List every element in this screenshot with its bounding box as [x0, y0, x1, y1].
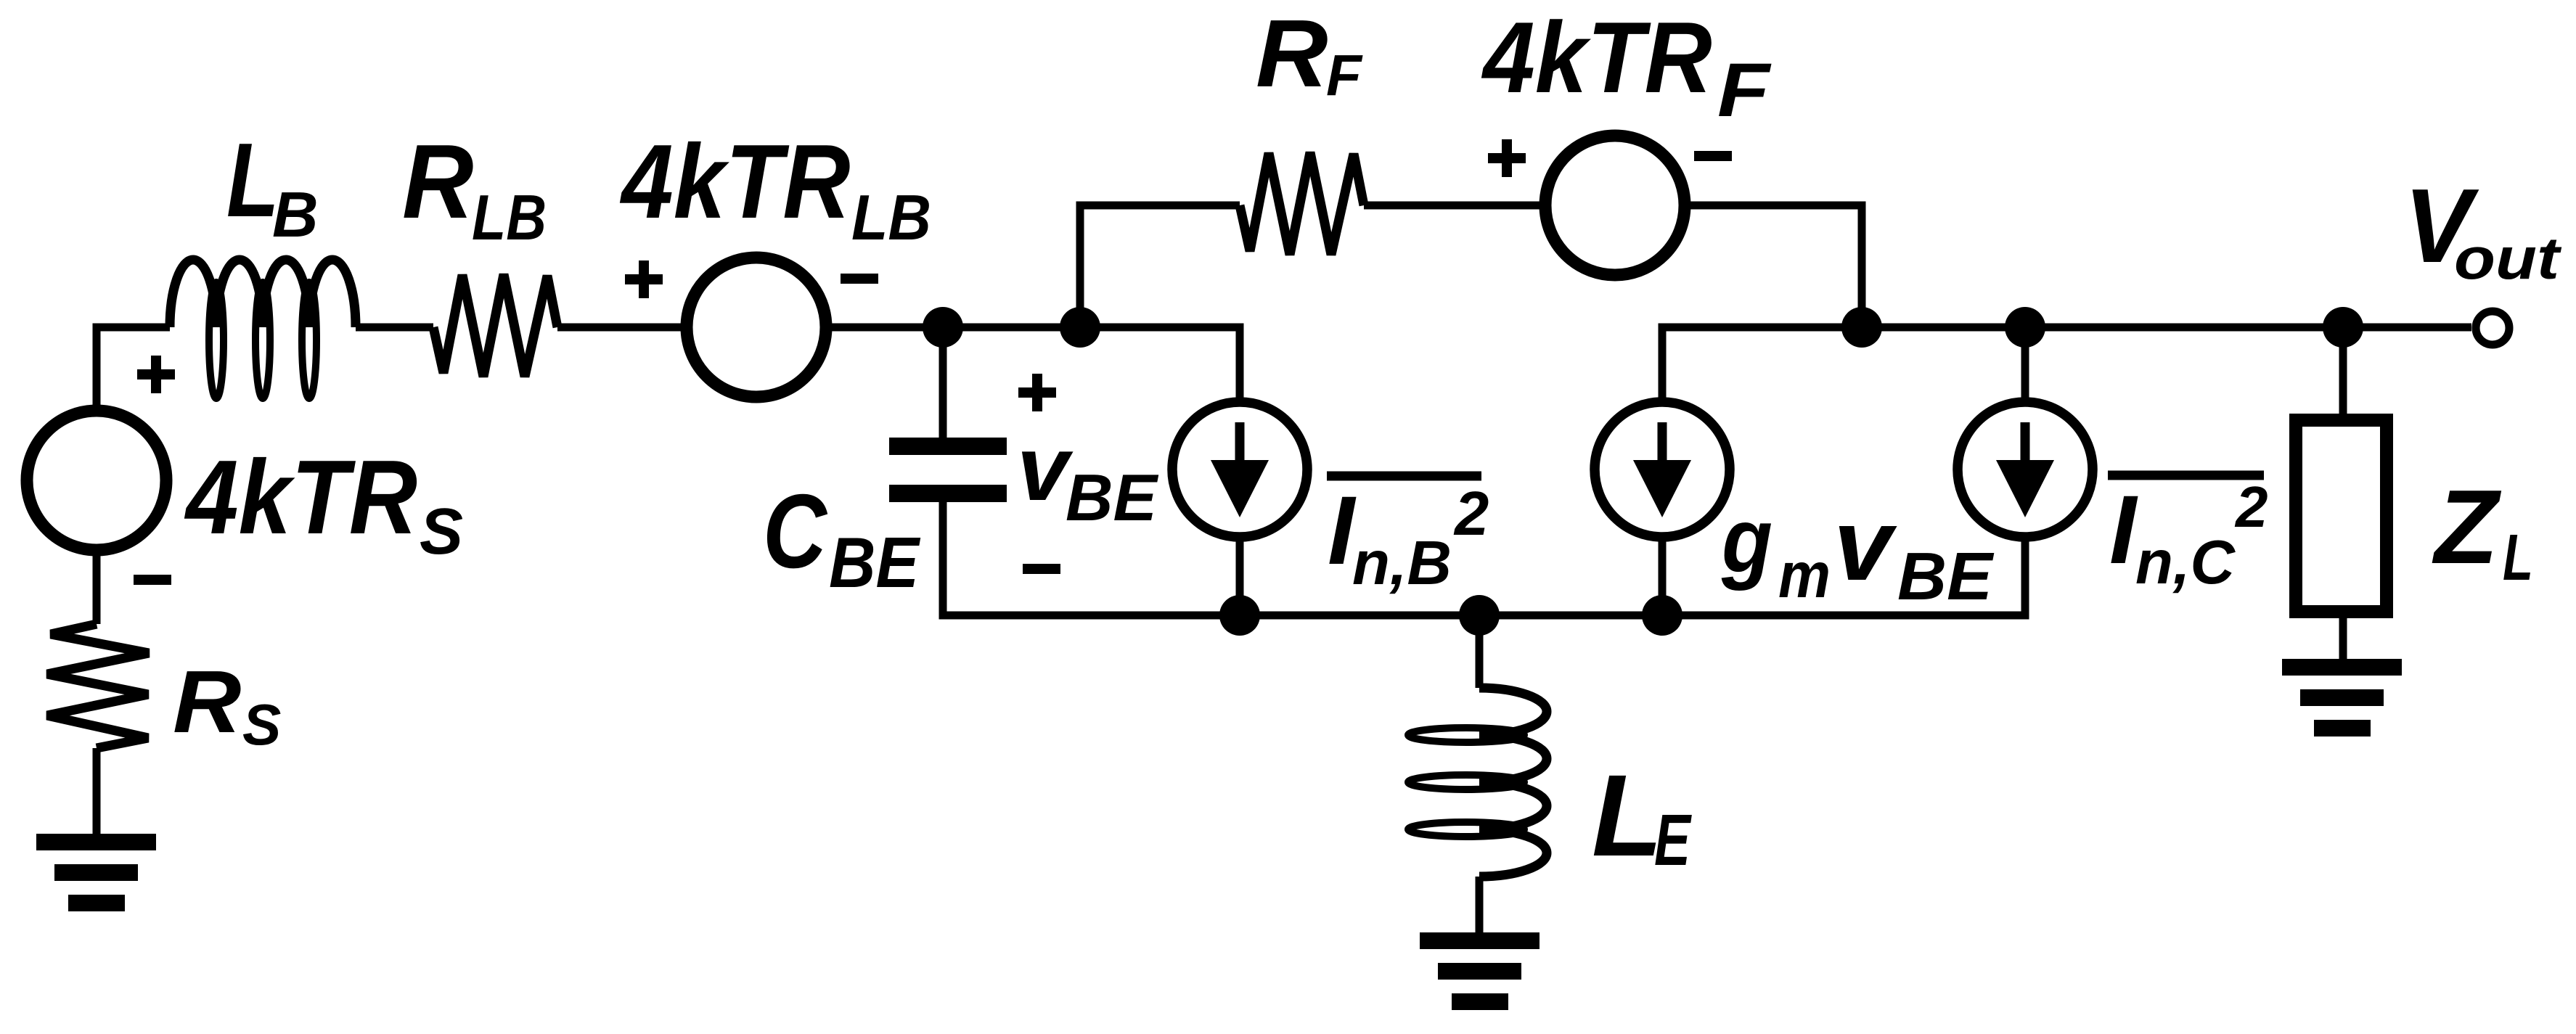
svg-text:R: R: [173, 652, 241, 751]
svg-text:v: v: [1833, 488, 1897, 602]
svg-text:n,B: n,B: [1352, 529, 1452, 598]
svg-text:4kTR: 4kTR: [1481, 1, 1712, 114]
svg-text:R: R: [1256, 0, 1328, 107]
svg-text:F: F: [1717, 48, 1772, 133]
svg-text:E: E: [1654, 800, 1692, 881]
svg-text:m: m: [1778, 538, 1831, 611]
svg-text:g: g: [1721, 489, 1772, 591]
svg-text:B: B: [272, 179, 319, 250]
svg-text:BE: BE: [1897, 538, 1995, 614]
svg-text:C: C: [763, 472, 828, 590]
svg-text:LB: LB: [472, 181, 547, 253]
svg-text:L: L: [1592, 750, 1663, 880]
svg-text:2: 2: [2234, 475, 2268, 539]
svg-text:Z: Z: [2432, 468, 2502, 586]
svg-text:n,C: n,C: [2135, 528, 2236, 597]
svg-text:L: L: [226, 121, 279, 239]
svg-text:2: 2: [1453, 480, 1489, 549]
svg-text:L: L: [2503, 522, 2533, 594]
svg-text:F: F: [1326, 43, 1363, 107]
svg-text:4kTR: 4kTR: [619, 123, 850, 240]
svg-text:S: S: [420, 496, 463, 568]
svg-text:R: R: [402, 123, 474, 240]
svg-text:4kTR: 4kTR: [184, 438, 417, 556]
svg-text:BE: BE: [829, 522, 920, 602]
svg-text:out: out: [2454, 226, 2562, 292]
svg-text:S: S: [242, 692, 281, 757]
svg-text:BE: BE: [1066, 461, 1158, 535]
svg-text:I: I: [2109, 476, 2138, 584]
svg-text:LB: LB: [851, 181, 931, 253]
